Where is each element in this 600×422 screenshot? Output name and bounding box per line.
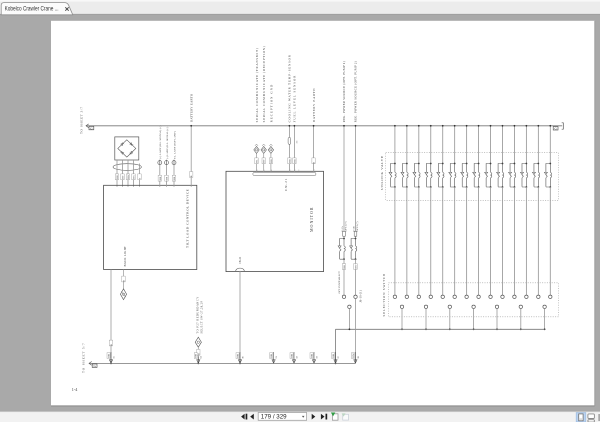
wire valve 8 drop from bus — [478, 126, 480, 164]
svg-text:TO SHEET 5/7: TO SHEET 5/7 — [82, 342, 86, 373]
wire valve 3 drop from bus — [418, 126, 420, 164]
junction top bus valve 3 — [418, 125, 420, 127]
junction bottom bus / monitor earth — [239, 363, 241, 365]
wire pole 7 to selection bus — [544, 309, 546, 330]
switch contact pole 2 — [424, 305, 427, 308]
svg-text:30B: 30B — [270, 354, 273, 359]
wire opt 1 to switch — [343, 259, 345, 295]
solenoid valve V10 — [497, 163, 504, 188]
wire valve 12 to selection switch — [525, 187, 527, 295]
box: UNLOCK VALVE (dashed) — [386, 153, 559, 201]
junction top bus valve 11 — [514, 125, 516, 127]
ground: body earth diamond (back light) — [120, 289, 126, 300]
svg-text:30B: 30B — [166, 176, 169, 181]
solenoid valve V9 — [485, 163, 492, 188]
inline connector opt 2 — [354, 231, 357, 236]
solenoid valve V3 — [413, 163, 420, 188]
svg-text:30L: 30L — [256, 159, 259, 164]
svg-text:(-) LAMP (ILL. SIGNAL) (-): (-) LAMP (ILL. SIGNAL) (-) — [166, 127, 169, 159]
wire opt pump 2 from bus — [355, 126, 357, 239]
connector on earth wire (tilt) — [107, 352, 115, 363]
junction bottom bus / riser — [335, 363, 337, 365]
switch contact pole 6 — [519, 305, 522, 308]
svg-text:MONITOR: MONITOR — [309, 206, 314, 232]
wire pole 3 to selection bus — [449, 309, 451, 330]
ground: body earth diamond (P27) — [195, 337, 201, 347]
wire rectifier out 3 — [127, 160, 129, 187]
switch contact throw 7 — [465, 295, 468, 298]
junction top bus valve 12 — [525, 125, 527, 127]
shield diamond serial 3 — [268, 144, 273, 153]
wire valve 3 to selection switch — [418, 187, 420, 295]
connector pin lamp 3 — [172, 160, 176, 187]
solenoid valve V2 — [401, 163, 408, 188]
solenoid valve V7 — [461, 163, 468, 188]
wire valve 12 drop from bus — [525, 126, 527, 164]
box: MONITOR — [226, 171, 324, 271]
wire opt 2 to switch — [355, 259, 357, 295]
wire serial 2 — [263, 153, 265, 171]
solenoid valve V12 — [520, 163, 527, 188]
switch contact pole 4 — [472, 305, 475, 308]
shield diamond serial 2 — [261, 144, 266, 153]
relay/diode unit opt 1 — [338, 238, 345, 261]
btn previous view — [332, 414, 338, 420]
solenoid valve V4 — [425, 163, 432, 188]
wire valve 4 drop from bus — [430, 126, 432, 164]
connector CN-21 exit hat — [236, 268, 245, 271]
svg-text:30B: 30B — [310, 354, 313, 359]
svg-text:OPT. PUMP SELECT: OPT. PUMP SELECT — [338, 271, 341, 294]
connector on P27 stub — [194, 353, 202, 364]
wire JS-19 down to bottom bus corner — [354, 299, 356, 364]
svg-text:30W: 30W — [127, 174, 130, 180]
wire rectifier out 2 — [122, 160, 124, 187]
active tab — [1, 3, 73, 15]
wire valve 10 drop from bus — [501, 126, 503, 164]
switch contact throw 9 — [489, 295, 492, 298]
shield diamond serial 1 — [254, 144, 259, 153]
wire pole 2 to selection bus — [425, 309, 427, 330]
wire pole 1 to selection bus — [401, 309, 403, 330]
junction top bus valve 13 — [537, 125, 539, 127]
svg-text:Kobelco Crawler Crane ...: Kobelco Crawler Crane ... — [5, 6, 59, 13]
switch contact pole 1 — [400, 305, 403, 308]
inline connector capsule — [288, 137, 291, 144]
wire valve 10 to selection switch — [501, 187, 503, 295]
junction top bus valve 10 — [502, 125, 504, 127]
svg-text:(+) LAMP (ILL. SIGNAL) (+): (+) LAMP (ILL. SIGNAL) (+) — [159, 125, 162, 159]
svg-text:SERIAL COMMUNICATE (RECEPTION: SERIAL COMMUNICATE (RECEPTION) — [262, 46, 266, 123]
connector CN-21 bracket — [253, 172, 316, 175]
wire valve 7 to selection switch — [466, 187, 468, 295]
svg-text:30B: 30B — [293, 159, 296, 164]
svg-text:30G: 30G — [133, 175, 136, 180]
switch contact throw 8 — [477, 295, 480, 298]
harness ellipse — [113, 164, 141, 171]
wire pole 5 to selection bus — [496, 309, 498, 330]
node G (to sheet 3/7) left flag — [86, 124, 94, 130]
wire valve 2 drop from bus — [406, 126, 408, 164]
wire opt common to selection bus — [348, 309, 350, 330]
wire opt pump 1 from bus — [343, 126, 345, 239]
svg-text:BACK LIGHT: BACK LIGHT — [123, 246, 127, 267]
svg-text:30B: 30B — [332, 354, 335, 359]
solenoid valve V6 — [449, 163, 456, 188]
connector on riser — [332, 352, 340, 363]
wire valve 1 to selection switch — [394, 187, 396, 295]
junction top bus valve 14 — [549, 125, 551, 127]
wire valve 4 to selection switch — [430, 187, 432, 295]
svg-text:Y: Y — [139, 178, 142, 180]
svg-text:1-4: 1-4 — [72, 387, 78, 392]
junction top bus valve 5 — [442, 125, 444, 127]
svg-text:TO SHEET 3/7: TO SHEET 3/7 — [80, 106, 84, 134]
switch contact throw 2 — [405, 295, 408, 298]
svg-text:30Y: 30Y — [122, 175, 125, 180]
wire rectifier out 1 — [116, 160, 118, 187]
switch contact throw 13 — [537, 295, 540, 298]
wire P27 stub to bottom bus — [197, 347, 199, 363]
svg-text:30B: 30B — [195, 354, 198, 359]
svg-text:179 / 329: 179 / 329 — [261, 414, 287, 421]
svg-text:JS-19-(1): JS-19-(1) — [359, 290, 362, 302]
box: SELECTION SWITCH (dashed) — [389, 283, 559, 317]
earth point 1 — [270, 352, 278, 363]
wire valve 14 to selection switch — [549, 187, 551, 295]
wire backlight earth stub — [123, 270, 125, 289]
svg-text:BATTERY EARTH: BATTERY EARTH — [189, 93, 193, 122]
solenoid valve V14 — [544, 163, 551, 188]
rectifier BR1 (bridge) — [115, 137, 139, 160]
wire: top earth bus — [86, 125, 562, 127]
svg-text:30W: 30W — [355, 264, 358, 270]
junction bottom bus / tilt earth — [110, 363, 112, 365]
junction top bus valve 8 — [478, 125, 480, 127]
svg-text:REG. POWER SOURCE (OPT. PUMP 1: REG. POWER SOURCE (OPT. PUMP 1) — [342, 61, 346, 122]
wire valve 8 to selection switch — [478, 187, 480, 295]
wire monitor earth down to bottom bus — [239, 271, 241, 364]
node G (to sheet 5/7) flag — [89, 362, 97, 369]
switch common pole opt select — [348, 305, 351, 308]
switch contact throw 1 — [393, 295, 396, 298]
earth point 2 — [290, 352, 298, 363]
junction top bus opt 2 — [355, 125, 357, 127]
wire pole 6 to selection bus — [520, 309, 522, 330]
wire valve 1 drop from bus — [394, 126, 396, 164]
wire valve 13 drop from bus — [537, 126, 539, 164]
svg-text:REG. POWER SOURCE (OPT. PUMP 2: REG. POWER SOURCE (OPT. PUMP 2) — [354, 61, 358, 122]
svg-text:30B: 30B — [173, 176, 176, 181]
partial icon at edge — [598, 414, 600, 421]
wire valve 6 drop from bus — [454, 126, 456, 164]
svg-text:30B: 30B — [288, 159, 291, 164]
switch contact throw 12 — [525, 295, 528, 298]
wire valve 5 drop from bus — [442, 126, 444, 164]
svg-text:FUEL LEVEL SENSOR: FUEL LEVEL SENSOR — [293, 75, 297, 123]
svg-text:5C: 5C — [296, 140, 299, 143]
junction selection bus pole 6 — [520, 328, 522, 330]
solenoid valve V8 — [473, 163, 480, 188]
connector on JS-19 wire — [351, 352, 359, 363]
earth point 3 — [310, 352, 318, 363]
junction selection bus pole 1 — [401, 328, 403, 330]
switch contact throw 11 — [513, 295, 516, 298]
btn first page — [241, 414, 245, 420]
connector pin lamp 2 — [165, 160, 169, 187]
svg-text:30B: 30B — [270, 159, 273, 164]
solenoid valve V1 — [389, 163, 396, 188]
switch contact opt 2 — [354, 295, 357, 298]
junction top bus valve 1 — [394, 125, 396, 127]
switch contact throw 10 — [501, 295, 504, 298]
switch contact throw 6 — [453, 295, 456, 298]
svg-text:CN-21: CN-21 — [239, 256, 242, 264]
switch contact throw 3 — [417, 295, 420, 298]
connector on monitor earth wire — [236, 352, 244, 363]
btn facing pages view — [588, 414, 595, 419]
svg-text:30R: 30R — [343, 265, 346, 270]
box: TILT LOAD CONTROL DEVICE — [104, 185, 197, 269]
wire battery earth to tilt box — [190, 126, 192, 187]
svg-text:SERIAL COMMUNICATE (TRANSMIT): SERIAL COMMUNICATE (TRANSMIT) — [255, 47, 259, 122]
connector pin lamp 1 — [158, 160, 162, 187]
btn next page — [312, 414, 316, 420]
wire fuel level sensor — [293, 126, 295, 172]
svg-text:TILT LOAD CONTROL DEVICE: TILT LOAD CONTROL DEVICE — [186, 189, 190, 248]
svg-text:30B: 30B — [290, 354, 293, 359]
bottom toolbar — [0, 412, 600, 422]
wire valve 11 to selection switch — [513, 187, 515, 295]
wire cooling water temp sensor — [288, 126, 290, 172]
svg-text:OPT.2 (*): OPT.2 (*) — [356, 221, 359, 231]
wire battery earth to monitor — [313, 126, 315, 172]
junction top bus valve 6 — [454, 125, 456, 127]
wire valve 13 to selection switch — [537, 187, 539, 295]
wire rectifier out 5 — [139, 164, 141, 187]
junction top bus opt 1 — [343, 125, 345, 127]
svg-text:1: 1 — [298, 170, 299, 172]
wire serial 3 — [270, 153, 272, 171]
svg-text:COOLING WATER TEMP-SENSOR: COOLING WATER TEMP-SENSOR — [288, 54, 292, 122]
svg-text:30B: 30B — [236, 354, 239, 359]
wire valve 9 to selection switch — [490, 187, 492, 295]
relay/diode unit opt 2 — [350, 238, 357, 261]
wire serial 1 — [256, 153, 258, 171]
switch contact throw 5 — [441, 295, 444, 298]
svg-text:P.L. LAMP (TOP LAMP): P.L. LAMP (TOP LAMP) — [173, 131, 176, 159]
wire valve 2 to selection switch — [406, 187, 408, 295]
solenoid valve V11 — [509, 163, 516, 188]
svg-text:OPT.1 (*): OPT.1 (*) — [344, 221, 347, 231]
btn last page — [321, 414, 325, 420]
junction top bus valve 4 — [430, 125, 432, 127]
junction selection bus pole 4 — [473, 328, 475, 330]
btn prev page — [250, 414, 254, 420]
svg-text:SELECT SW-27,28,29: SELECT SW-27,28,29 — [200, 301, 203, 334]
junction bottom bus / P27 — [197, 363, 199, 365]
svg-text:30B: 30B — [107, 354, 110, 359]
btn single page view (active) — [576, 413, 586, 422]
junction selection bus pole 2 — [425, 328, 427, 330]
svg-text:SELECTION SWITCH: SELECTION SWITCH — [382, 273, 386, 316]
svg-text:30Y: 30Y — [263, 159, 266, 164]
svg-text:30R: 30R — [116, 175, 119, 180]
wire tilt box earth down to bottom bus — [110, 270, 112, 364]
solenoid valve V13 — [532, 163, 539, 188]
page number box — [258, 413, 306, 421]
wire valve 5 to selection switch — [442, 187, 444, 295]
junction selection bus pole 5 — [496, 328, 498, 330]
junction on top bus — [190, 125, 192, 127]
wire valve 7 drop from bus — [466, 126, 468, 164]
wire: selection switch bus — [336, 328, 545, 330]
inline connector opt 1 — [343, 231, 346, 236]
wire valve 6 to selection switch — [454, 187, 456, 295]
junction selection bus pole 3 — [449, 328, 451, 330]
switch contact throw 4 — [429, 295, 432, 298]
wire riser selection bus to bottom bus — [335, 329, 337, 363]
solenoid valve V5 — [437, 163, 444, 188]
wire valve 14 drop from bus — [549, 126, 551, 164]
switch contact throw 14 — [549, 295, 552, 298]
wire: bottom earth bus — [89, 362, 355, 364]
svg-text:UNLOCK VALVE: UNLOCK VALVE — [380, 155, 384, 190]
wire valve 9 drop from bus — [490, 126, 492, 164]
junction top bus valve 2 — [406, 125, 408, 127]
svg-text:30W: 30W — [352, 353, 355, 359]
switch contact opt 1 — [342, 295, 345, 298]
switch contact pole 7 — [543, 305, 546, 308]
svg-text:CN-21: CN-21 — [284, 178, 288, 191]
switch contact pole 3 — [448, 305, 451, 308]
svg-text:RECEPTION GND: RECEPTION GND — [269, 84, 273, 123]
wire rectifier out 4 — [133, 160, 135, 187]
svg-text:BATTERY EARTH: BATTERY EARTH — [312, 88, 316, 122]
junction top bus valve 7 — [466, 125, 468, 127]
node G right flag — [553, 123, 563, 131]
junction selection bus pole 7 — [544, 328, 546, 330]
tab bar — [0, 0, 600, 15]
switch contact pole 5 — [495, 305, 498, 308]
wire valve 11 drop from bus — [513, 126, 515, 164]
junction top bus valve 9 — [490, 125, 492, 127]
btn next view (disabled) — [343, 414, 349, 420]
svg-text:30B: 30B — [159, 176, 162, 181]
wire pole 4 to selection bus — [473, 309, 475, 330]
svg-text:TO P27 REDUNDANCY: TO P27 REDUNDANCY — [196, 296, 199, 333]
